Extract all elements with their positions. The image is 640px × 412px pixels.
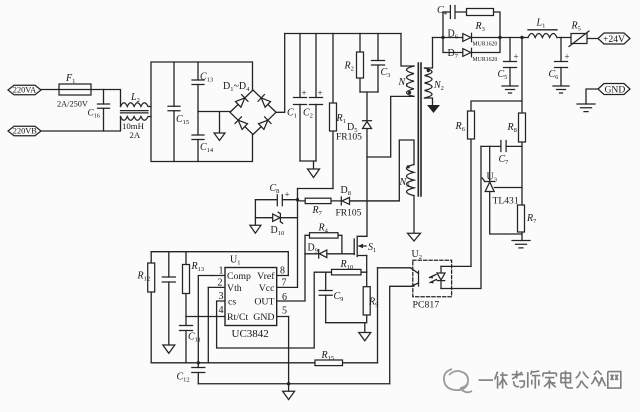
svg-text:220VB: 220VB <box>13 127 37 136</box>
svg-text:6: 6 <box>282 292 287 303</box>
svg-text:Vth: Vth <box>227 283 242 294</box>
svg-text:Vref: Vref <box>257 271 275 282</box>
svg-text:+: + <box>514 52 519 62</box>
svg-text:GND: GND <box>253 312 274 323</box>
svg-text:2: 2 <box>218 278 223 289</box>
svg-text:2A: 2A <box>130 130 141 140</box>
svg-text:+: + <box>285 190 290 200</box>
svg-text:5: 5 <box>282 306 287 317</box>
svg-text:D1~D4: D1~D4 <box>223 81 250 93</box>
svg-text:MUR1620: MUR1620 <box>473 57 498 63</box>
svg-text:+24V: +24V <box>603 34 625 45</box>
svg-text:+: + <box>565 52 570 62</box>
svg-text:Rt/Ct: Rt/Ct <box>227 312 249 323</box>
svg-text:cs: cs <box>228 297 236 308</box>
svg-text:+: + <box>318 88 323 98</box>
svg-text:FR105: FR105 <box>336 133 362 143</box>
svg-text:3: 3 <box>219 291 224 302</box>
svg-text:8: 8 <box>280 266 285 277</box>
svg-text:220VA: 220VA <box>13 86 36 95</box>
svg-text:TL431: TL431 <box>493 196 519 207</box>
svg-text:OUT: OUT <box>254 297 274 308</box>
svg-text:Comp: Comp <box>227 271 251 282</box>
svg-text:MUR1620: MUR1620 <box>473 42 498 48</box>
svg-text:4: 4 <box>219 305 224 316</box>
svg-text:+: + <box>302 88 307 98</box>
svg-text:GND: GND <box>605 84 626 95</box>
svg-text:Vcc: Vcc <box>259 283 275 294</box>
svg-text:FR105: FR105 <box>336 209 362 219</box>
svg-text:7: 7 <box>282 278 287 289</box>
svg-text:1: 1 <box>219 266 224 277</box>
svg-text:2A/250V: 2A/250V <box>57 100 88 109</box>
svg-text:PC817: PC817 <box>413 300 440 311</box>
svg-text:UC3842: UC3842 <box>232 328 269 340</box>
